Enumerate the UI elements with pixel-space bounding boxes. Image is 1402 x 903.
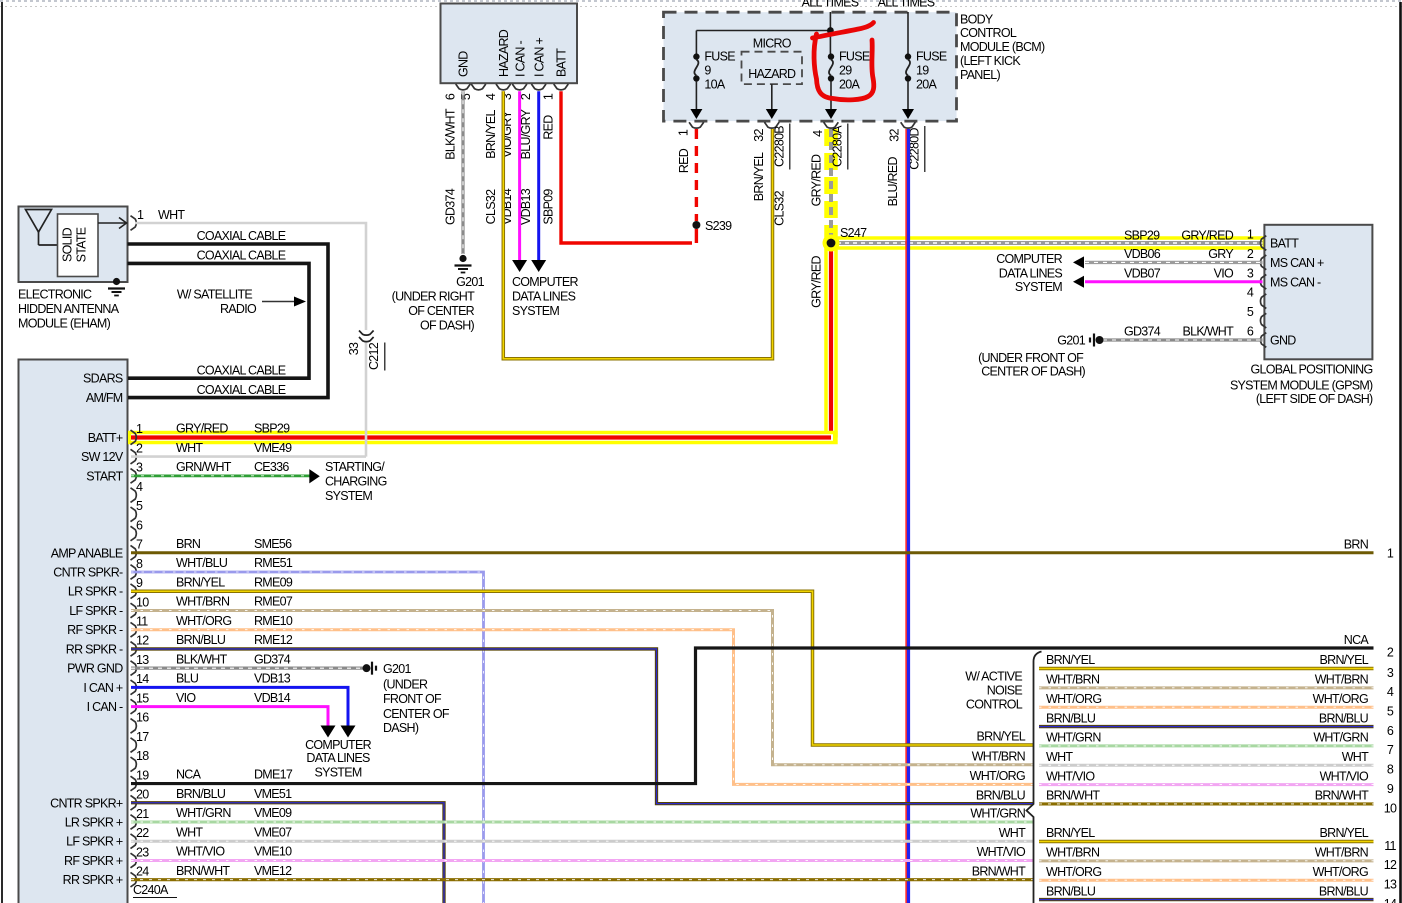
svg-text:4: 4 <box>811 130 825 137</box>
svg-text:BRN/BLU: BRN/BLU <box>176 633 226 647</box>
svg-text:SBP09: SBP09 <box>542 189 556 225</box>
svg-text:6: 6 <box>136 518 143 532</box>
svg-text:(LEFT SIDE OF DASH): (LEFT SIDE OF DASH) <box>1256 392 1373 406</box>
svg-text:4: 4 <box>1387 685 1394 699</box>
svg-text:RED: RED <box>677 148 691 173</box>
svg-text:BRN/BLU: BRN/BLU <box>976 788 1026 802</box>
svg-text:6: 6 <box>444 93 458 100</box>
svg-text:12: 12 <box>1384 858 1397 872</box>
svg-text:WHT/GRN: WHT/GRN <box>970 807 1025 821</box>
svg-text:6: 6 <box>1247 325 1254 339</box>
svg-text:LR SPKR +: LR SPKR + <box>65 816 123 830</box>
svg-text:WHT: WHT <box>176 825 203 839</box>
svg-text:VME10: VME10 <box>254 845 292 859</box>
svg-text:RME10: RME10 <box>254 614 293 628</box>
svg-text:CONTROL: CONTROL <box>966 698 1023 712</box>
svg-text:FRONT OF: FRONT OF <box>383 692 442 706</box>
svg-text:WHT/ORG: WHT/ORG <box>1313 865 1368 879</box>
svg-text:I CAN -: I CAN - <box>87 700 123 714</box>
svg-text:7: 7 <box>1387 743 1394 757</box>
svg-text:BRN/YEL: BRN/YEL <box>1046 826 1095 840</box>
svg-text:GRY/RED: GRY/RED <box>176 422 228 436</box>
svg-text:ALL TIMES: ALL TIMES <box>878 0 935 10</box>
svg-text:2: 2 <box>136 441 143 455</box>
svg-text:BRN/BLU: BRN/BLU <box>1319 884 1369 898</box>
svg-text:BRN/BLU: BRN/BLU <box>176 787 226 801</box>
svg-text:3: 3 <box>1387 666 1394 680</box>
svg-text:DATA LINES: DATA LINES <box>512 290 576 304</box>
svg-text:WHT/GRN: WHT/GRN <box>176 806 231 820</box>
svg-text:5: 5 <box>1247 305 1254 319</box>
svg-text:CENTER OF: CENTER OF <box>383 707 450 721</box>
svg-text:WHT/VIO: WHT/VIO <box>1320 769 1369 783</box>
svg-text:GND: GND <box>457 51 471 77</box>
svg-text:32: 32 <box>752 129 766 142</box>
svg-text:WHT/BRN: WHT/BRN <box>1046 846 1100 860</box>
svg-text:RR SPKR +: RR SPKR + <box>63 873 123 887</box>
svg-text:VDB06: VDB06 <box>1124 247 1161 261</box>
svg-text:BLU: BLU <box>176 672 199 686</box>
svg-text:MICRO: MICRO <box>753 37 792 51</box>
svg-text:12: 12 <box>136 634 149 648</box>
svg-text:COAXIAL CABLE: COAXIAL CABLE <box>197 249 286 263</box>
svg-text:SME56: SME56 <box>254 537 292 551</box>
svg-text:WHT/GRN: WHT/GRN <box>1313 731 1368 745</box>
svg-text:SBP29: SBP29 <box>1124 228 1160 242</box>
svg-text:BRN/WHT: BRN/WHT <box>176 864 230 878</box>
svg-text:20A: 20A <box>916 78 937 92</box>
svg-text:WHT/ORG: WHT/ORG <box>1046 865 1101 879</box>
svg-text:COAXIAL CABLE: COAXIAL CABLE <box>197 383 286 397</box>
svg-text:C2280A: C2280A <box>831 125 845 167</box>
svg-text:RED: RED <box>542 115 556 140</box>
svg-text:19: 19 <box>136 768 149 782</box>
svg-text:10A: 10A <box>704 78 725 92</box>
svg-text:W/ SATELLITE: W/ SATELLITE <box>177 288 253 302</box>
svg-text:2: 2 <box>519 93 533 100</box>
svg-text:WHT/VIO: WHT/VIO <box>1046 769 1095 783</box>
svg-text:BRN/YEL: BRN/YEL <box>752 152 766 201</box>
svg-text:9: 9 <box>704 64 711 78</box>
svg-text:HAZARD: HAZARD <box>497 29 511 77</box>
svg-text:SYSTEM: SYSTEM <box>325 489 372 503</box>
svg-text:SW 12V: SW 12V <box>81 450 124 464</box>
svg-text:RME09: RME09 <box>254 575 293 589</box>
svg-text:5: 5 <box>459 93 473 100</box>
svg-text:MODULE (EHAM): MODULE (EHAM) <box>18 317 111 331</box>
svg-text:(UNDER FRONT OF: (UNDER FRONT OF <box>978 351 1084 365</box>
svg-text:GD374: GD374 <box>444 188 458 225</box>
svg-text:8: 8 <box>1387 763 1394 777</box>
svg-text:SYSTEM MODULE (GPSM): SYSTEM MODULE (GPSM) <box>1230 379 1373 393</box>
svg-text:VME51: VME51 <box>254 787 292 801</box>
svg-text:WHT/BRN: WHT/BRN <box>1315 846 1369 860</box>
svg-text:WHT/VIO: WHT/VIO <box>176 845 225 859</box>
svg-text:VDB13: VDB13 <box>254 672 291 686</box>
svg-text:VME49: VME49 <box>254 441 292 455</box>
svg-text:RF SPKR +: RF SPKR + <box>64 854 123 868</box>
svg-text:21: 21 <box>136 807 149 821</box>
svg-text:3: 3 <box>1247 266 1254 280</box>
svg-text:19: 19 <box>916 64 929 78</box>
svg-text:RF SPKR -: RF SPKR - <box>67 623 123 637</box>
svg-text:BRN/BLU: BRN/BLU <box>1046 711 1096 725</box>
svg-text:33: 33 <box>347 342 361 355</box>
svg-text:WHT/ORG: WHT/ORG <box>176 614 231 628</box>
svg-text:NCA: NCA <box>176 768 202 782</box>
svg-text:2: 2 <box>1247 247 1254 261</box>
svg-text:BATT: BATT <box>1270 237 1299 251</box>
svg-text:20A: 20A <box>839 78 860 92</box>
svg-text:ELECTRONIC: ELECTRONIC <box>18 288 92 302</box>
svg-text:VDB14: VDB14 <box>254 691 291 705</box>
svg-text:WHT/ORG: WHT/ORG <box>970 769 1025 783</box>
svg-text:GRY/RED: GRY/RED <box>810 255 824 307</box>
svg-text:STATE: STATE <box>75 227 89 262</box>
svg-text:SYSTEM: SYSTEM <box>1015 280 1062 294</box>
svg-text:WHT/BRN: WHT/BRN <box>1315 673 1369 687</box>
svg-text:LF SPKR -: LF SPKR - <box>69 604 123 618</box>
svg-text:NCA: NCA <box>1344 633 1370 647</box>
svg-text:PWR GND: PWR GND <box>67 662 123 676</box>
svg-text:CLS32: CLS32 <box>484 189 498 224</box>
svg-text:RR SPKR -: RR SPKR - <box>66 642 123 656</box>
svg-text:4: 4 <box>136 480 143 494</box>
svg-text:COMPUTER: COMPUTER <box>305 738 371 752</box>
svg-text:S239: S239 <box>705 219 732 233</box>
svg-text:BLK/WHT: BLK/WHT <box>444 108 458 160</box>
svg-text:COMPUTER: COMPUTER <box>512 275 578 289</box>
svg-text:CE336: CE336 <box>254 460 289 474</box>
svg-text:13: 13 <box>1384 878 1397 892</box>
svg-text:C240A: C240A <box>133 883 169 897</box>
svg-text:5: 5 <box>1387 705 1394 719</box>
svg-text:START: START <box>86 469 123 483</box>
svg-text:WHT/ORG: WHT/ORG <box>1046 692 1101 706</box>
svg-text:ALL TIMES: ALL TIMES <box>802 0 859 10</box>
svg-text:17: 17 <box>136 730 149 744</box>
svg-text:WHT/BLU: WHT/BLU <box>176 556 228 570</box>
svg-text:FUSE: FUSE <box>704 50 735 64</box>
svg-text:VIO: VIO <box>1214 267 1234 281</box>
svg-text:11: 11 <box>136 615 148 629</box>
svg-text:3: 3 <box>136 461 143 475</box>
svg-text:VDB13: VDB13 <box>519 188 533 225</box>
svg-text:9: 9 <box>1387 782 1394 796</box>
svg-text:WHT: WHT <box>1342 750 1369 764</box>
svg-text:1: 1 <box>1387 547 1394 561</box>
svg-text:BRN/YEL: BRN/YEL <box>1320 653 1369 667</box>
svg-text:FUSE: FUSE <box>916 50 947 64</box>
svg-text:C212: C212 <box>367 342 381 370</box>
svg-text:DASH): DASH) <box>383 721 419 735</box>
svg-text:WHT: WHT <box>1046 750 1073 764</box>
svg-text:MODULE (BCM): MODULE (BCM) <box>960 40 1045 54</box>
svg-text:10: 10 <box>1384 801 1397 815</box>
svg-text:BRN/WHT: BRN/WHT <box>1315 789 1369 803</box>
svg-text:BRN/YEL: BRN/YEL <box>484 110 498 159</box>
svg-text:BRN: BRN <box>1344 537 1369 551</box>
svg-text:STARTING/: STARTING/ <box>325 460 385 474</box>
svg-text:RME07: RME07 <box>254 595 293 609</box>
svg-text:22: 22 <box>136 826 149 840</box>
svg-text:RME51: RME51 <box>254 556 293 570</box>
svg-text:PANEL): PANEL) <box>960 68 1000 82</box>
svg-text:OF DASH): OF DASH) <box>420 319 475 333</box>
svg-text:CHARGING: CHARGING <box>325 474 387 488</box>
svg-text:SYSTEM: SYSTEM <box>512 304 559 318</box>
svg-text:SDARS: SDARS <box>83 372 123 386</box>
svg-text:I CAN -: I CAN - <box>513 41 527 77</box>
svg-text:BRN/YEL: BRN/YEL <box>1320 826 1369 840</box>
svg-text:20: 20 <box>136 788 149 802</box>
svg-text:BLU/RED: BLU/RED <box>886 157 900 207</box>
svg-text:CENTER OF DASH): CENTER OF DASH) <box>981 365 1085 379</box>
svg-text:WHT/ORG: WHT/ORG <box>1313 692 1368 706</box>
svg-text:COMPUTER: COMPUTER <box>996 252 1062 266</box>
svg-text:W/ ACTIVE: W/ ACTIVE <box>965 669 1022 683</box>
svg-text:CONTROL: CONTROL <box>960 26 1017 40</box>
svg-text:DATA LINES: DATA LINES <box>306 751 370 765</box>
svg-text:1: 1 <box>136 422 143 436</box>
svg-text:23: 23 <box>136 845 149 859</box>
svg-text:BLK/WHT: BLK/WHT <box>1182 325 1234 339</box>
svg-text:G201: G201 <box>456 275 484 289</box>
svg-text:DME17: DME17 <box>254 768 293 782</box>
svg-text:10: 10 <box>136 595 149 609</box>
svg-text:29: 29 <box>839 64 852 78</box>
svg-text:WHT/BRN: WHT/BRN <box>1046 673 1100 687</box>
svg-text:2: 2 <box>1387 645 1394 659</box>
svg-text:VME07: VME07 <box>254 825 292 839</box>
svg-text:(UNDER: (UNDER <box>383 677 428 691</box>
svg-text:DATA LINES: DATA LINES <box>999 267 1063 281</box>
svg-text:7: 7 <box>136 538 143 552</box>
svg-text:24: 24 <box>136 864 149 878</box>
svg-text:COAXIAL CABLE: COAXIAL CABLE <box>197 229 286 243</box>
svg-text:WHT/VIO: WHT/VIO <box>977 845 1026 859</box>
svg-text:BODY: BODY <box>960 12 994 26</box>
svg-text:CNTR SPKR-: CNTR SPKR- <box>53 566 123 580</box>
svg-text:VME09: VME09 <box>254 806 292 820</box>
svg-text:9: 9 <box>136 576 143 590</box>
svg-text:HAZARD: HAZARD <box>748 67 796 81</box>
svg-text:1: 1 <box>542 93 556 100</box>
svg-text:AM/FM: AM/FM <box>86 391 123 405</box>
svg-text:VIO: VIO <box>176 691 196 705</box>
svg-text:4: 4 <box>1247 286 1254 300</box>
svg-text:BATT: BATT <box>555 48 569 77</box>
svg-text:(LEFT KICK: (LEFT KICK <box>960 54 1021 68</box>
svg-text:GRY/RED: GRY/RED <box>810 154 824 206</box>
svg-text:HIDDEN ANTENNA: HIDDEN ANTENNA <box>18 302 120 316</box>
svg-text:32: 32 <box>888 129 902 142</box>
svg-text:C2280B: C2280B <box>773 126 787 167</box>
svg-text:8: 8 <box>136 557 143 571</box>
svg-text:BATT+: BATT+ <box>88 431 123 445</box>
svg-text:1: 1 <box>137 208 144 222</box>
svg-text:I CAN +: I CAN + <box>532 38 546 77</box>
svg-text:GRY: GRY <box>1208 247 1234 261</box>
svg-text:14: 14 <box>1384 897 1397 903</box>
svg-text:OF CENTER: OF CENTER <box>408 304 474 318</box>
svg-text:BRN/YEL: BRN/YEL <box>977 730 1026 744</box>
svg-text:18: 18 <box>136 749 149 763</box>
svg-text:WHT: WHT <box>999 826 1026 840</box>
svg-text:WHT: WHT <box>158 208 185 222</box>
svg-text:WHT: WHT <box>176 441 203 455</box>
svg-text:13: 13 <box>136 653 149 667</box>
svg-text:4: 4 <box>484 93 498 100</box>
svg-text:SYSTEM: SYSTEM <box>314 766 361 780</box>
svg-text:MS CAN +: MS CAN + <box>1270 256 1324 270</box>
svg-text:G201: G201 <box>1057 334 1085 348</box>
svg-text:BRN/WHT: BRN/WHT <box>972 864 1026 878</box>
svg-text:6: 6 <box>1387 724 1394 738</box>
svg-text:BLU/GRY: BLU/GRY <box>519 108 533 159</box>
svg-text:LF SPKR +: LF SPKR + <box>66 835 123 849</box>
svg-text:S247: S247 <box>840 226 867 240</box>
svg-text:FUSE: FUSE <box>839 50 870 64</box>
svg-text:(UNDER RIGHT: (UNDER RIGHT <box>392 290 475 304</box>
svg-text:BRN/YEL: BRN/YEL <box>1046 653 1095 667</box>
svg-text:BRN/BLU: BRN/BLU <box>1319 711 1369 725</box>
svg-text:GD374: GD374 <box>254 652 291 666</box>
svg-text:LR SPKR -: LR SPKR - <box>68 585 123 599</box>
svg-text:I CAN +: I CAN + <box>83 681 122 695</box>
svg-text:1: 1 <box>677 129 691 136</box>
svg-text:BLK/WHT: BLK/WHT <box>176 652 228 666</box>
svg-text:VDB07: VDB07 <box>1124 267 1161 281</box>
svg-text:RME12: RME12 <box>254 633 293 647</box>
svg-text:BRN/WHT: BRN/WHT <box>1046 789 1100 803</box>
svg-text:CLS32: CLS32 <box>773 190 787 225</box>
svg-text:G201: G201 <box>383 662 411 676</box>
svg-text:GND: GND <box>1270 334 1296 348</box>
svg-text:GD374: GD374 <box>1124 325 1161 339</box>
svg-text:RADIO: RADIO <box>220 302 257 316</box>
svg-text:BRN/BLU: BRN/BLU <box>1046 884 1096 898</box>
svg-text:CNTR SPKR+: CNTR SPKR+ <box>50 796 123 810</box>
svg-text:AMP ANABLE: AMP ANABLE <box>51 546 123 560</box>
svg-text:WHT/BRN: WHT/BRN <box>972 750 1026 764</box>
svg-text:WHT/GRN: WHT/GRN <box>1046 731 1101 745</box>
svg-text:GRY/RED: GRY/RED <box>1181 228 1233 242</box>
svg-text:GRN/WHT: GRN/WHT <box>176 460 232 474</box>
svg-text:14: 14 <box>136 672 149 686</box>
svg-text:1: 1 <box>1247 228 1254 242</box>
svg-text:COAXIAL CABLE: COAXIAL CABLE <box>197 364 286 378</box>
svg-text:NOISE: NOISE <box>987 683 1023 697</box>
svg-text:11: 11 <box>1384 839 1396 853</box>
svg-text:SBP29: SBP29 <box>254 422 290 436</box>
svg-text:5: 5 <box>136 499 143 513</box>
svg-text:BRN/YEL: BRN/YEL <box>176 575 225 589</box>
svg-text:BRN: BRN <box>176 537 201 551</box>
svg-text:16: 16 <box>136 711 149 725</box>
svg-text:MS CAN -: MS CAN - <box>1270 276 1321 290</box>
svg-text:VME12: VME12 <box>254 864 292 878</box>
svg-text:GLOBAL POSITIONING: GLOBAL POSITIONING <box>1250 363 1372 377</box>
svg-text:WHT/BRN: WHT/BRN <box>176 595 230 609</box>
svg-text:SOLID: SOLID <box>61 227 75 262</box>
svg-text:15: 15 <box>136 691 149 705</box>
